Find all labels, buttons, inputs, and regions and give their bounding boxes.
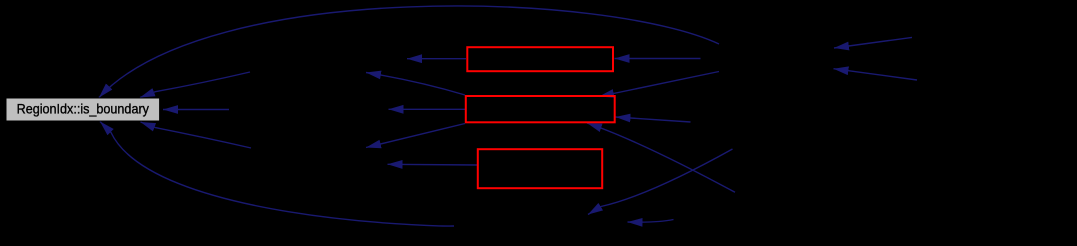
wire edge E7 from red node 2 top-left corner [366,73,465,96]
red node 1 [467,47,613,71]
wire edge E14 into red node 2 bottom-right corner [587,123,735,192]
wire edge E17 from far right upper [834,37,912,48]
wire edge E13 into red node 2 right [616,117,691,122]
wire edge E6 from red node 1 left [407,58,466,60]
wire edge E9 from red node 3 left horizontal [388,163,478,166]
wire edge E5 big bottom arc into gray node bottom-left [100,122,454,227]
svg-text:RegionIdx::is_boundary: RegionIdx::is_boundary [17,101,149,117]
wire edge E12 into red node 2 top-right corner [599,72,719,97]
red node 3 [478,149,602,188]
wire edge E3 horizontal into gray node right [163,109,229,111]
wire edge E18 from far right lower [834,69,918,80]
wire edge E10 from red node 2 bottom-left corner [366,124,465,148]
wire edge E8 from red node 2 left horizontal [389,108,466,110]
wire edge E15 crossing down to bottom node [588,149,733,215]
wire edge E4 into gray node bottom-right [141,122,252,148]
node RegionIdx::is_boundary (gray current node) [6,98,160,121]
wire edge E16 short bottom arrow [628,220,674,223]
wire edge E1 big top arc from node cluster to gray node top [99,6,719,98]
red node 2 [466,96,615,122]
wire edge E11 horizontal into red node 1 right [615,58,701,60]
wire edge E2 into gray node top-right [140,72,250,98]
